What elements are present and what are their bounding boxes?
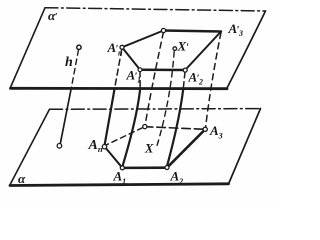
- lower pentagon edge An to A1: [105, 147, 123, 168]
- plane alpha left edge: [10, 109, 50, 185]
- lower pentagon hidden edge A3 to top vertex (dashed): [147, 127, 203, 129]
- X'-X projection line (dashed): [156, 52, 174, 150]
- plane alpha-prime bottom edge (thick): [11, 87, 228, 90]
- lateral edge A'1-A1 visible part (solid): [123, 89, 141, 166]
- vertex circle upper top: [161, 28, 165, 32]
- lateral edge A'n-An hidden part (dashed): [115, 50, 122, 89]
- line h solid part: [60, 89, 71, 144]
- X' point circle: [173, 47, 177, 51]
- lower pentagon edge A2 to A3 (thick): [167, 129, 205, 167]
- upper pentagon edge A'n to top vertex: [122, 31, 164, 48]
- upper pentagon edge A'3 to A'2: [185, 32, 221, 71]
- upper pentagon edge A'2 to A'1 (thick): [140, 68, 185, 71]
- plane alpha-prime top edge (dash-dot): [45, 8, 266, 11]
- vertex circle An: [102, 145, 106, 149]
- svg-text:h: h: [65, 55, 73, 70]
- plane alpha-prime left edge: [10, 8, 45, 89]
- line h dashed part under plane alpha-prime: [71, 50, 78, 89]
- vertex circle A2: [165, 166, 169, 170]
- lateral edge A'2-A2 hidden part (dashed): [183, 72, 185, 89]
- lateral edge A'3-A3 (dashed): [206, 33, 221, 128]
- plane alpha-prime right edge: [227, 11, 266, 89]
- upper pentagon edge top vertex to A'3 (thick): [164, 31, 222, 32]
- vertex circle A'1 (small): [138, 68, 142, 72]
- lower pentagon hidden edge top vertex to An (dashed): [106, 128, 142, 145]
- line h foot circle on plane alpha: [57, 144, 62, 149]
- lateral edge top: A'top to lower top vertex (dashed): [145, 32, 163, 125]
- line h: upper circle: [77, 45, 81, 49]
- lateral edge A'2-A2 visible part (solid): [167, 89, 183, 166]
- plane alpha right edge: [229, 109, 261, 185]
- vertex circle A'n: [120, 45, 124, 49]
- svg-text:α: α: [18, 171, 26, 186]
- vertex circle A3: [203, 127, 207, 131]
- vertex circle A'2: [183, 68, 187, 72]
- upper pentagon edge A'1 to A'n: [122, 47, 140, 69]
- plane alpha top edge (dash-dot): [50, 108, 261, 111]
- svg-text:X: X: [144, 142, 154, 156]
- vertex circle lower top (pentagon): [143, 125, 147, 129]
- plane alpha bottom edge (thick): [10, 184, 229, 186]
- lateral edge A'n-An visible part (solid): [105, 89, 115, 145]
- lateral edge A'1-A1 hidden part (dashed): [139, 71, 141, 89]
- vertex circle A1: [120, 166, 124, 170]
- lower pentagon edge A1 to A2 (thick): [122, 166, 167, 169]
